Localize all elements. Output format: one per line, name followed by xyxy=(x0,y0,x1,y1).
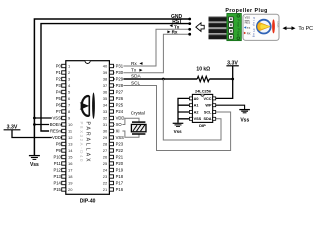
svg-text:P10: P10 xyxy=(53,155,61,160)
crystal X1 xyxy=(131,122,146,134)
svg-text:P7: P7 xyxy=(56,109,62,114)
U1 pin 20 (P15) xyxy=(53,187,73,192)
svg-text:P2: P2 xyxy=(56,77,62,82)
ground main left xyxy=(29,156,40,168)
svg-text:22: 22 xyxy=(103,181,108,186)
node SDA junction dot xyxy=(162,78,165,81)
svg-text:To PC: To PC xyxy=(298,26,313,32)
svg-text:P23: P23 xyxy=(116,142,124,147)
svg-text:VSS: VSS xyxy=(245,16,251,20)
svg-text:27: 27 xyxy=(103,148,108,153)
svg-text:P24: P24 xyxy=(116,109,124,114)
svg-text:XI: XI xyxy=(116,129,120,134)
wire Rx (Propeller P30 to plug RX row, crossover) xyxy=(113,34,189,72)
svg-text:Prop Plug: Prop Plug xyxy=(252,17,256,37)
svg-text:18: 18 xyxy=(68,174,73,179)
power 3.3V left xyxy=(4,124,21,130)
U1 pin 11 (RESn) xyxy=(49,129,73,134)
svg-text:SCL: SCL xyxy=(131,80,141,85)
U1 pin 7 (P6) xyxy=(56,103,71,108)
wire GND net (top row + left vertical) xyxy=(34,19,189,155)
label RST with overline xyxy=(172,19,182,25)
U1 pin 38 (P29) xyxy=(103,77,124,82)
svg-text:13: 13 xyxy=(68,142,73,147)
svg-text:16: 16 xyxy=(68,161,73,166)
U1 pin 3 (P2) xyxy=(56,77,71,82)
svg-text:A0: A0 xyxy=(194,97,199,101)
label To PC with double arrow xyxy=(283,26,314,32)
svg-text:BOEn: BOEn xyxy=(50,122,62,127)
svg-text:23: 23 xyxy=(103,174,108,179)
svg-text:P11: P11 xyxy=(54,161,62,166)
svg-text:VCC: VCC xyxy=(203,97,211,101)
svg-text:P13: P13 xyxy=(53,174,61,179)
U1 pin 22 (P17) xyxy=(103,181,124,186)
svg-text:P14: P14 xyxy=(53,181,61,186)
U1 pin 13 (P8) xyxy=(56,142,73,147)
arrow to wires (hollow left arrow) xyxy=(196,23,204,32)
wire Tx (Propeller P31 to plug TX row, crossover) xyxy=(113,29,189,66)
U1 pin 31 (XO) xyxy=(103,122,123,127)
U1 pin 6 (P5) xyxy=(56,96,71,101)
svg-text:38: 38 xyxy=(103,77,108,82)
U1 pin 29 (VSS) xyxy=(103,135,124,140)
U1 pin 12 (VDD) xyxy=(52,135,73,140)
U1 pin 10 (BOEn) xyxy=(49,122,73,127)
svg-text:Vss: Vss xyxy=(30,162,39,168)
svg-text:17: 17 xyxy=(68,168,73,173)
node Rx header dot xyxy=(188,33,191,36)
svg-text:36: 36 xyxy=(103,90,108,95)
U1 pin 2 (P1) xyxy=(56,70,71,75)
svg-text:24LC256: 24LC256 xyxy=(195,89,212,94)
U1 pin 18 (P13) xyxy=(53,174,73,179)
svg-text:31: 31 xyxy=(103,122,108,127)
svg-text:32: 32 xyxy=(103,116,108,121)
wire VSS pin9 xyxy=(34,117,61,119)
U1 pin 39 (P30) xyxy=(103,70,124,75)
svg-text:P9: P9 xyxy=(56,148,62,153)
U1 pin 28 (P23) xyxy=(103,142,124,147)
U1 pin 9 (VSS) xyxy=(52,116,71,121)
U2 pin 4 (VSS) xyxy=(189,117,201,121)
svg-text:P8: P8 xyxy=(56,142,62,147)
svg-text:TX: TX xyxy=(247,26,251,30)
label Rx at chip xyxy=(131,61,143,66)
svg-text:P18: P18 xyxy=(116,174,124,179)
svg-text:P29: P29 xyxy=(116,77,124,82)
wire SCL (P28 to EEPROM SCL) xyxy=(113,86,230,151)
svg-text:28: 28 xyxy=(103,142,108,147)
svg-text:Rx: Rx xyxy=(131,61,137,66)
U1 pin 21 (P16) xyxy=(103,187,124,192)
wire WP to ground xyxy=(216,105,245,109)
label XO over wire xyxy=(115,122,123,127)
IC U2 24LC256 EEPROM body xyxy=(192,94,212,122)
svg-text:Vss: Vss xyxy=(174,129,183,134)
node 3.3V/SDA pullup dot xyxy=(231,78,234,81)
svg-text:12: 12 xyxy=(68,135,73,140)
svg-text:P26: P26 xyxy=(116,96,124,101)
svg-text:SDA: SDA xyxy=(203,117,211,121)
U1 pin 36 (P27) xyxy=(103,90,124,95)
svg-text:29: 29 xyxy=(103,135,108,140)
U1 pin 30 (XI) xyxy=(103,129,121,134)
svg-text:30: 30 xyxy=(103,129,108,134)
svg-text:A2: A2 xyxy=(194,110,199,114)
svg-text:10: 10 xyxy=(68,122,73,127)
ground at U2 xyxy=(173,123,184,134)
U2 pin 1 (A0) xyxy=(189,97,198,101)
U1 pin 33 (P24) xyxy=(103,109,124,114)
svg-text:37: 37 xyxy=(103,83,108,88)
node Tx header dot xyxy=(188,28,191,31)
svg-text:SDA: SDA xyxy=(131,74,142,79)
svg-text:Crystal: Crystal xyxy=(131,110,145,115)
node BOEn tee dot xyxy=(33,123,36,126)
U1 pin 14 (P9) xyxy=(56,148,73,153)
svg-text:VDD: VDD xyxy=(52,135,61,140)
svg-text:Vss: Vss xyxy=(240,118,249,124)
svg-text:Prop Plug: Prop Plug xyxy=(236,20,240,36)
svg-text:WP: WP xyxy=(205,104,212,108)
svg-text:P22: P22 xyxy=(116,148,124,153)
svg-text:DIP-40: DIP-40 xyxy=(80,198,96,204)
U1 pin 15 (P10) xyxy=(53,155,73,160)
svg-text:P25: P25 xyxy=(116,103,124,108)
U1 pin 4 (P3) xyxy=(56,83,71,88)
node RST header dot xyxy=(188,22,191,25)
svg-text:15: 15 xyxy=(68,155,73,160)
svg-text:P4: P4 xyxy=(56,90,62,95)
svg-text:P30: P30 xyxy=(116,70,124,75)
svg-text:P19: P19 xyxy=(116,168,124,173)
wire RST net (top row + vertical to RESn) xyxy=(41,24,190,131)
U2 pin 3 (A2) xyxy=(189,110,198,114)
svg-text:25: 25 xyxy=(103,161,108,166)
node VSS tee dot xyxy=(33,117,36,120)
svg-text:20: 20 xyxy=(68,187,73,192)
U2 pin 5 (SDA) xyxy=(203,117,215,121)
svg-text:Tx: Tx xyxy=(131,68,137,73)
U1 pin 34 (P25) xyxy=(103,103,124,108)
svg-text:VDD: VDD xyxy=(116,116,125,121)
Propeller Plug green PCB xyxy=(227,14,241,41)
svg-text:A1: A1 xyxy=(194,104,199,108)
svg-text:P12: P12 xyxy=(53,168,61,173)
svg-text:RX: RX xyxy=(247,31,251,35)
U1 pin 27 (P22) xyxy=(103,148,124,153)
svg-text:P21: P21 xyxy=(116,155,124,160)
svg-text:39: 39 xyxy=(103,70,108,75)
label Rx at header xyxy=(167,29,178,34)
resistor R1 10 kOhm xyxy=(197,76,209,81)
svg-text:P15: P15 xyxy=(53,187,61,192)
svg-text:35: 35 xyxy=(103,96,108,101)
U2 pin 8 (VCC) xyxy=(203,97,215,101)
ground at WP xyxy=(239,110,250,124)
svg-text:VSS: VSS xyxy=(116,135,125,140)
Propeller Plug header pins (black prongs) xyxy=(209,17,228,40)
svg-text:P27: P27 xyxy=(116,90,124,95)
U1 pin 8 (P7) xyxy=(56,109,71,114)
wire XO to crystal xyxy=(113,118,139,124)
svg-text:USB: USB xyxy=(276,21,280,27)
U1 pin 16 (P11) xyxy=(54,161,73,166)
U1 pin 25 (P20) xyxy=(103,161,124,166)
U1 pin 24 (P19) xyxy=(103,168,124,173)
svg-text:P16: P16 xyxy=(116,187,124,192)
svg-text:P17: P17 xyxy=(116,181,124,186)
svg-text:33: 33 xyxy=(103,109,108,114)
wire VDD pin12 from 3.3V xyxy=(12,130,62,138)
U1 pin 1 (P0) xyxy=(56,64,71,69)
wire U2 address/VSS bus to ground xyxy=(178,98,189,122)
wire XI to crystal xyxy=(113,131,139,137)
svg-text:RESn: RESn xyxy=(50,129,62,134)
node GND header dot xyxy=(188,18,191,21)
svg-text:VSS: VSS xyxy=(194,117,202,121)
U1 pin 23 (P18) xyxy=(103,174,124,179)
svg-text:DIP: DIP xyxy=(199,123,206,128)
U1 pin 40 (P31) xyxy=(103,64,124,69)
svg-text:XO: XO xyxy=(116,122,123,127)
U1 pin 37 (P28) xyxy=(103,83,124,88)
U1 pin 17 (P12) xyxy=(53,168,73,173)
wire BOEn pin10 xyxy=(34,124,61,126)
U1 Parallax logo xyxy=(80,93,95,119)
U1 pin 35 (P26) xyxy=(103,96,124,101)
U1 pin 26 (P21) xyxy=(103,155,124,160)
svg-text:19: 19 xyxy=(68,181,73,186)
Propeller Plug white module xyxy=(243,14,280,40)
U1 pin 5 (P4) xyxy=(56,90,71,95)
label XI over wire xyxy=(115,129,123,134)
power 3.3V right xyxy=(226,61,238,67)
svg-text:24: 24 xyxy=(103,168,108,173)
U1 pin 32 (VDD) xyxy=(103,116,125,121)
svg-text:SCL: SCL xyxy=(204,110,212,114)
svg-text:P31: P31 xyxy=(116,64,124,69)
svg-text:RES: RES xyxy=(245,21,251,25)
svg-text:Rx: Rx xyxy=(172,29,178,34)
U1 pin 19 (P14) xyxy=(53,181,73,186)
svg-text:P5: P5 xyxy=(56,96,62,101)
U2 pin 7 (WP) xyxy=(205,104,215,108)
svg-text:P28: P28 xyxy=(116,83,124,88)
U2 pin 2 (A1) xyxy=(189,104,198,108)
svg-text:34: 34 xyxy=(103,103,108,108)
svg-text:40: 40 xyxy=(103,64,108,69)
svg-text:P20: P20 xyxy=(116,161,124,166)
wire SDA bus (P29 row with pull-up) xyxy=(113,78,232,80)
svg-text:10 kΩ: 10 kΩ xyxy=(196,67,210,73)
svg-text:VSS: VSS xyxy=(53,116,62,121)
svg-text:21: 21 xyxy=(103,187,108,192)
svg-text:14: 14 xyxy=(68,148,73,153)
svg-text:P6: P6 xyxy=(56,103,62,108)
svg-text:26: 26 xyxy=(103,155,108,160)
IC U1 Propeller P8X32A DIP-40 body xyxy=(66,61,110,195)
svg-text:P0: P0 xyxy=(56,64,62,69)
svg-text:P8X32A-D40: P8X32A-D40 xyxy=(79,122,84,163)
svg-text:P1: P1 xyxy=(56,70,62,75)
label Tx at chip xyxy=(131,68,143,73)
wire 3.3V to VCC xyxy=(216,66,233,99)
U2 pin 6 (SCL) xyxy=(204,110,216,114)
svg-text:P3: P3 xyxy=(56,83,62,88)
wire SDA branch loop to EEPROM xyxy=(163,79,221,140)
label Tx at header xyxy=(170,24,180,29)
